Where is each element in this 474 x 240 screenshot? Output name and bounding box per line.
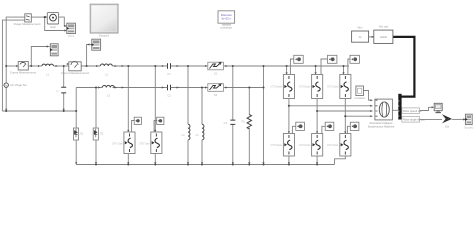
wire scopeC tap — [87, 45, 92, 67]
TR block 2 rate — [374, 25, 393, 44]
wire gate stub G4 — [292, 126, 295, 133]
svg-text:L1: L1 — [46, 72, 50, 76]
voltage measurement VM1 — [13, 14, 40, 26]
svg-text:C: C — [56, 89, 58, 93]
gate square G5 — [325, 122, 334, 130]
gate square G6 — [350, 122, 359, 130]
signal label box 1 — [402, 108, 422, 113]
display block — [464, 114, 474, 129]
svg-text:GTO Diode: GTO Diode — [299, 87, 311, 89]
gate square G3 — [350, 55, 359, 63]
svg-text:Rotor angle thetam: Rotor angle thetam — [403, 118, 425, 122]
wire bus out1 to scope — [402, 107, 434, 110]
GTO M2 — [151, 132, 162, 154]
svg-text:Curent Measurement1: Curent Measurement1 — [61, 71, 89, 75]
inductor L2 — [100, 64, 112, 76]
svg-text:Scope2: Scope2 — [464, 125, 474, 129]
wire shunt branch x96 — [95, 88, 97, 129]
TR block 1 gain — [352, 26, 369, 43]
inductor L1 — [42, 64, 53, 76]
GTO U2 — [312, 75, 323, 99]
PMSM machine — [368, 99, 395, 128]
gate square G2 — [328, 55, 337, 63]
wire tap to scopeA lower — [45, 17, 66, 30]
wire capacitor branch — [232, 66, 234, 120]
input arrowheads — [5, 16, 465, 165]
inductor L3 — [102, 86, 114, 98]
shunt capacitor C1 — [56, 87, 66, 93]
svg-text:du/dt: du/dt — [380, 35, 387, 39]
svg-text:L2: L2 — [105, 72, 109, 76]
current measurement CM1 — [10, 62, 36, 75]
svg-text:GTO Gate: GTO Gate — [112, 143, 123, 146]
svg-text:AC Vtage Src: AC Vtage Src — [10, 83, 28, 87]
surge arrester SA2 — [208, 84, 224, 98]
wire phase C — [345, 99, 372, 117]
wire shunt capacitor branch — [63, 66, 65, 87]
diode D2 — [93, 128, 104, 140]
svg-text:C1: C1 — [167, 72, 171, 76]
wire gate stub G3 — [348, 59, 350, 75]
RMS block U0 — [47, 13, 58, 29]
wire AC source bottom — [5, 87, 7, 111]
wire inductor branch a — [187, 66, 189, 124]
scope B — [50, 44, 58, 56]
wire TR block1 to block2 — [369, 36, 374, 38]
svg-text:Gain: Gain — [50, 25, 56, 29]
wire phase A — [289, 99, 373, 106]
svg-text:Wm: Wm — [358, 26, 364, 30]
svg-text:Rotor speed wm: Rotor speed wm — [403, 109, 422, 113]
GTO U4 — [283, 134, 294, 157]
AC voltage source V1 — [4, 83, 28, 87]
svg-text:GTO Gate: GTO Gate — [139, 143, 150, 146]
wire gate stub G6 — [347, 126, 350, 133]
resistor R1 — [242, 115, 252, 129]
svg-text:C2: C2 — [167, 93, 171, 97]
svg-text:C3: C3 — [224, 121, 228, 125]
vertical inductor Lb — [196, 124, 204, 140]
wire top of GTO U3 — [343, 66, 345, 75]
wire arrow to final block — [452, 118, 466, 120]
wire ground rail y111 — [2, 110, 76, 112]
wire line1 — [6, 65, 18, 67]
vertical inductor La — [182, 124, 190, 140]
scope C — [92, 39, 101, 50]
GTO U5 — [312, 134, 323, 157]
powergui — [218, 11, 235, 30]
wire resistor branch — [248, 88, 250, 115]
wire thick speed feedback — [393, 37, 415, 97]
wire mid gate m1 — [132, 121, 135, 133]
current measurement CM2 — [61, 62, 89, 76]
svg-text:GTO Diode: GTO Diode — [299, 145, 311, 147]
GTO U6 — [340, 134, 351, 157]
GTO M1 — [124, 132, 135, 154]
wire GTO branch mid1 — [127, 66, 129, 132]
series capacitor C3 — [164, 85, 175, 98]
wire inductor branch b — [201, 88, 203, 125]
wire bus out2 to arrow — [402, 118, 442, 120]
wire left vertical v1 — [2, 20, 24, 111]
svg-text:L3: L3 — [107, 94, 111, 98]
constant block K1 — [355, 86, 366, 100]
wire source vertical v2 top — [6, 17, 25, 66]
wire constant to Tm — [364, 91, 373, 101]
scope D monitor — [434, 103, 442, 112]
svg-text:GTO Diode: GTO Diode — [327, 87, 339, 89]
wire GTO branch mid2 — [154, 66, 156, 132]
GTO U3 — [340, 75, 351, 99]
svg-text:GTO Diode: GTO Diode — [271, 87, 283, 89]
svg-text:Synchronous Machine: Synchronous Machine — [368, 124, 395, 128]
diode D1 — [73, 128, 84, 140]
wire line2 — [76, 87, 102, 89]
svg-text:-K-: -K- — [358, 35, 362, 39]
scope1 big block — [90, 4, 118, 37]
svg-text:Curent Measurement: Curent Measurement — [10, 70, 36, 74]
series capacitor C2 — [164, 63, 175, 76]
wire top of GTO U1 — [286, 66, 288, 75]
wire phase B — [317, 99, 372, 112]
vertical capacitor C4 — [224, 120, 236, 125]
svg-text:GTO Diode: GTO Diode — [327, 145, 339, 147]
svg-text:Nm rad: Nm rad — [379, 25, 389, 29]
svg-text:Out: Out — [445, 125, 449, 129]
wire scopeB tap — [31, 47, 49, 67]
wire gate stub G1 — [290, 59, 293, 75]
svg-text:Vtage Measurement: Vtage Measurement — [13, 22, 40, 26]
wire gate stub G2 — [321, 59, 327, 75]
svg-text:Scope1: Scope1 — [99, 34, 110, 38]
svg-text:GTO Diode: GTO Diode — [271, 145, 283, 147]
svg-text:Constant: Constant — [355, 96, 366, 100]
wire dc link vertical — [263, 66, 265, 165]
wire gate stub G5 — [322, 126, 325, 133]
svg-text:S1: S1 — [214, 72, 218, 76]
gate square G4 — [296, 122, 305, 130]
surge arrester SA1 — [208, 62, 224, 75]
wire mid gate m2 — [154, 121, 157, 133]
GTO U1 — [283, 75, 294, 99]
wire shunt branch x76 — [75, 88, 77, 129]
arrow marker — [442, 114, 452, 128]
svg-text:powergui: powergui — [221, 26, 233, 30]
wire AC source to line1 — [5, 66, 7, 83]
wire block1 to RMS circle — [31, 16, 47, 18]
svg-text:S2: S2 — [214, 93, 218, 97]
scope A — [67, 23, 76, 38]
svg-text:5e-05 s: 5e-05 s — [222, 17, 232, 21]
wire top of GTO U2 — [315, 66, 317, 75]
wire machine m to bus selector — [392, 109, 398, 111]
wire RMS out to scopeA — [59, 17, 67, 26]
gate square Gm1 — [134, 117, 141, 124]
bus selector — [398, 94, 401, 120]
signal label box 2 — [402, 117, 425, 122]
wire bottom bus — [76, 164, 334, 166]
svg-text:R1: R1 — [242, 120, 246, 124]
svg-text:Vrms: Vrms — [68, 34, 75, 38]
gate square Gm2 — [157, 117, 164, 124]
gate square G1 — [294, 55, 303, 63]
wire lower GTO bottoms — [288, 156, 290, 165]
